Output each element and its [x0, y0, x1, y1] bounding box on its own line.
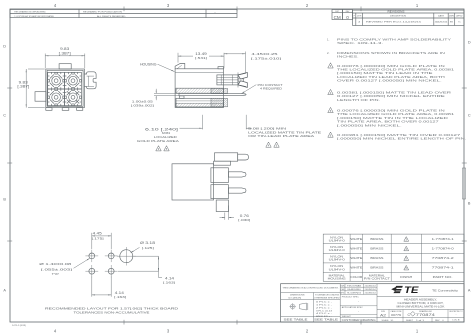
svg-text:HOUSING: HOUSING — [328, 277, 346, 281]
svg-text:© COPYRIGHT BY AMP INCOR: © COPYRIGHT BY AMP INCORPORATED — [14, 15, 55, 18]
svg-text:REVISED PER ECO-14-018215: REVISED PER ECO-14-018215 — [366, 22, 423, 24]
side view upper pin — [228, 172, 246, 177]
lower contact cross-section hatched — [211, 98, 228, 107]
front view housing body — [46, 69, 85, 108]
svg-text:DWN: DWN — [449, 15, 455, 17]
flag notes 4 6 triangles — [266, 142, 271, 147]
svg-text:24AUG2014: 24AUG2014 — [435, 21, 448, 24]
svg-text:D: D — [3, 45, 6, 49]
front view right latch — [84, 72, 96, 89]
svg-text:Ø 1.40±0.08: Ø 1.40±0.08 — [39, 262, 72, 266]
svg-text:3 PLC ±0.13: 3 PLC ±0.13 — [316, 310, 332, 312]
side view upper contact block — [211, 168, 229, 183]
svg-text:[.030]: [.030] — [238, 218, 250, 222]
side view bottom foot — [216, 200, 228, 212]
svg-text:D: D — [468, 41, 471, 45]
dimension 4.14 [.163] horizontal bottom — [91, 277, 93, 297]
product spec cell — [340, 305, 377, 307]
svg-text:[.125]: [.125] — [142, 246, 154, 250]
housing top step — [218, 67, 224, 69]
see table cells — [281, 316, 341, 318]
svg-text:SEE TABLE: SEE TABLE — [284, 318, 308, 322]
svg-text:24JUN2014: 24JUN2014 — [365, 289, 376, 291]
svg-text:FINISH: FINISH — [400, 276, 412, 279]
dimension 9.83 [.387] height - front view — [28, 68, 45, 70]
dimension 9.83 [.387] width - front view — [44, 54, 46, 69]
svg-text:MINI-UNIVERSAL MATE-N-LOK: MINI-UNIVERSAL MATE-N-LOK — [397, 306, 445, 309]
svg-text:REVISIONS: REVISIONS — [388, 12, 406, 14]
svg-text:0 PLC ± -: 0 PLC ± - — [316, 302, 333, 304]
svg-text:THIS DRAWING IS UNPUBLISHED.: THIS DRAWING IS UNPUBLISHED. — [14, 11, 46, 14]
svg-text:2.: 2. — [327, 51, 330, 55]
svg-text:BRASS: BRASS — [370, 237, 383, 241]
svg-text:A2: A2 — [380, 313, 386, 317]
svg-text:DIMENSIONS:: DIMENSIONS: — [290, 294, 305, 296]
name and date cells — [340, 286, 377, 288]
svg-text:UL94V-0: UL94V-0 — [329, 239, 346, 243]
contact cavity — [48, 72, 65, 89]
zone ticks bottom — [123, 320, 125, 325]
svg-text:[.175]: [.175] — [92, 236, 104, 240]
drawing number row — [377, 309, 464, 311]
svg-text:[.000050] MIN NICKEL ENTIRE LE: [.000050] MIN NICKEL ENTIRE LENGTH OF PI… — [337, 137, 467, 141]
svg-text:[.000050] MIN NICKEL.: [.000050] MIN NICKEL. — [337, 123, 402, 127]
svg-text:P/N CONTACT: P/N CONTACT — [364, 277, 391, 281]
svg-text:APVD: APVD — [456, 14, 463, 17]
side view top step — [214, 161, 231, 165]
revisions table — [353, 10, 464, 25]
dimension 4.45 [.175] hole spacing — [91, 233, 93, 249]
svg-text:WEIGHT: WEIGHT — [342, 316, 352, 318]
svg-text:S.DENG: S.DENG — [347, 293, 362, 295]
dimension 13.49 [.531] — [177, 53, 179, 63]
zone ticks right — [462, 87, 467, 89]
svg-text:GOLD PLATE AREA: GOLD PLATE AREA — [137, 139, 180, 143]
svg-text:SCALE: SCALE — [382, 319, 390, 322]
svg-text:24JUN2014: 24JUN2014 — [365, 293, 376, 295]
svg-text:[.039±.002]: [.039±.002] — [131, 103, 154, 107]
svg-text:WHITE: WHITE — [350, 247, 362, 251]
dimension 0.76 [.030] — [224, 213, 226, 220]
svg-text:1 PLC ± -: 1 PLC ± - — [316, 305, 333, 307]
dimension 1.00±0.05 pin thickness — [154, 92, 179, 94]
svg-text:CUSTOMER DRAWING: CUSTOMER DRAWING — [342, 319, 376, 322]
parts table — [323, 234, 464, 281]
upper hatched wall — [176, 88, 224, 93]
flag notes 3 5 triangles — [156, 146, 161, 151]
drawing title — [377, 296, 464, 298]
svg-text:24JUN2014: 24JUN2014 — [365, 285, 376, 287]
contact cavity — [65, 89, 82, 106]
svg-text:OVER 0.00127 [.000050] MIN NIC: OVER 0.00127 [.000050] MIN NICKEL. — [337, 79, 442, 83]
svg-text:CM: CM — [334, 15, 341, 20]
svg-text:UL94V-0: UL94V-0 — [329, 267, 346, 271]
svg-text:RESTRICTED TO: RESTRICTED TO — [450, 311, 464, 313]
svg-text:TOLERANCES NON-ACCUMULATIVE: TOLERANCES NON-ACCUMULATIVE — [74, 310, 150, 314]
svg-text:770874-1: 770874-1 — [432, 266, 455, 270]
svg-text:1 of 1: 1 of 1 — [416, 320, 425, 322]
svg-text:4 REQUIRED: 4 REQUIRED — [260, 87, 283, 91]
svg-text:2 PLC ± -: 2 PLC ± - — [316, 307, 333, 309]
svg-text:1-770874-1: 1-770874-1 — [432, 237, 455, 241]
svg-text:[.175±.010]: [.175±.010] — [251, 56, 281, 60]
svg-text:PART NO.: PART NO. — [433, 275, 453, 279]
svg-text:OTHERWISE SPECIFIED:: OTHERWISE SPECIFIED: — [314, 298, 340, 300]
pcb layout large hole — [120, 250, 133, 263]
side view housing body — [172, 164, 214, 200]
distribution box CM — [332, 10, 343, 20]
svg-text:INCHES.: INCHES. — [337, 55, 359, 59]
svg-text:ALL RIGHTS RESERVED.: ALL RIGHTS RESERVED. — [97, 15, 127, 18]
svg-text:B: B — [468, 202, 471, 206]
dimension 4.14 [.163] vertical right — [134, 255, 159, 257]
svg-text:[.531]: [.531] — [195, 56, 207, 60]
title block outline — [281, 284, 464, 322]
svg-text:Ø 3.18: Ø 3.18 — [140, 241, 155, 245]
svg-text:APVD: APVD — [341, 292, 346, 295]
svg-text:SPEC. 109-11-3.: SPEC. 109-11-3. — [337, 41, 384, 45]
svg-text:COLOR: COLOR — [350, 276, 362, 279]
recommended pcb layout holes — [89, 253, 95, 259]
dimension 4.45±0.25 [.175±.010] — [245, 52, 247, 73]
revision status box 0 — [343, 10, 353, 20]
revision bar right edge — [462, 168, 465, 199]
svg-text:- -: - - — [214, 12, 216, 14]
svg-text:-: - — [358, 310, 359, 313]
svg-text:RELEASED FOR PUBLICATION: RELEASED FOR PUBLICATION — [83, 11, 123, 14]
svg-text:1471-9 (3/13): 1471-9 (3/13) — [12, 325, 26, 327]
zone ticks left — [7, 87, 12, 89]
svg-text:J.BLANCHFIELD: J.BLANCHFIELD — [347, 288, 362, 291]
contact cavity — [48, 89, 65, 106]
dimension 6.10 [.240] MIN LOCALIZED GOLD PLATE AREA — [202, 115, 204, 130]
front view left mounting boss — [35, 92, 46, 102]
svg-text:PRODUCT SPEC: PRODUCT SPEC — [342, 296, 360, 298]
application spec cell — [340, 313, 377, 315]
svg-text:1-770874-0: 1-770874-0 — [432, 247, 455, 251]
pin retention bump — [179, 96, 184, 99]
svg-text:APPLICATION SPEC: APPLICATION SPEC — [342, 306, 364, 309]
svg-text:P.McGOWAN: P.McGOWAN — [347, 284, 362, 287]
dimension 5.08 [.200] MIN LOCALIZED MATTE TIN PLATE — [245, 115, 247, 130]
section view housing outline — [175, 69, 223, 108]
svg-text:UL94V-0: UL94V-0 — [329, 258, 346, 262]
svg-text:BRASS: BRASS — [370, 256, 383, 260]
svg-text:C: C — [468, 114, 471, 118]
svg-text:00779: 00779 — [391, 313, 401, 317]
svg-text:DATE: DATE — [438, 14, 445, 17]
svg-text:BRASS: BRASS — [370, 247, 383, 251]
svg-text:[.387]: [.387] — [17, 85, 29, 89]
svg-text:4 PLC ± -: 4 PLC ± - — [316, 313, 333, 315]
svg-text:OR TIN-LEAD PLATE AREA: OR TIN-LEAD PLATE AREA — [248, 134, 316, 138]
svg-text:-: - — [358, 301, 359, 304]
svg-text:1.: 1. — [327, 37, 330, 41]
svg-text:TYP: TYP — [52, 272, 59, 276]
svg-text:[.163]: [.163] — [114, 295, 126, 299]
svg-text:LENGTH OF PIN.: LENGTH OF PIN. — [337, 98, 380, 102]
svg-text:UL94V-0: UL94V-0 — [329, 248, 346, 252]
projection symbol — [290, 304, 295, 309]
svg-text:mm [INCH]: mm [INCH] — [288, 298, 302, 300]
scale sheet rev row — [377, 317, 464, 319]
housing inner wall line — [175, 71, 223, 73]
side view lower contact block — [211, 185, 229, 199]
TE Connectivity logo — [391, 285, 419, 295]
zone ticks top — [123, 7, 125, 12]
svg-text:TE Connectivity: TE Connectivity — [432, 288, 459, 292]
mating contact crown tip — [238, 72, 247, 79]
svg-text:[.163]: [.163] — [163, 280, 175, 284]
svg-text:0: 0 — [346, 15, 349, 20]
dimensions cell — [281, 298, 341, 300]
svg-text:DIST: DIST — [335, 11, 339, 13]
svg-text:THIS DRAWING IS A CONTROLLED D: THIS DRAWING IS A CONTROLLED DOCUMENT. — [282, 287, 338, 290]
section view latch hook — [175, 64, 185, 69]
svg-text:A: A — [468, 289, 471, 293]
svg-text:770874: 770874 — [416, 313, 435, 317]
svg-text:TOLERANCES UNLESS: TOLERANCES UNLESS — [315, 293, 340, 296]
svg-text:WHITE: WHITE — [350, 256, 362, 260]
contact cavity — [65, 72, 82, 89]
svg-text:WHITE: WHITE — [350, 266, 362, 270]
lower wall hatched strip — [176, 103, 224, 107]
svg-text:C: C — [3, 114, 6, 118]
mating contact body — [217, 75, 238, 85]
svg-text:BRASS: BRASS — [370, 266, 383, 270]
svg-text:WHITE: WHITE — [350, 237, 362, 241]
unpublished notice strip — [10, 10, 237, 18]
svg-text:[.055±.003]: [.055±.003] — [41, 268, 72, 272]
svg-text:SEE TABLE: SEE TABLE — [314, 318, 338, 322]
front view top tab — [59, 64, 71, 69]
side view top contact piece — [215, 153, 238, 161]
svg-text:DESCRIPTION: DESCRIPTION — [390, 15, 407, 17]
svg-text:LOC B: LOC B — [453, 319, 461, 321]
controlled document cell — [281, 292, 341, 294]
weight cell — [340, 317, 377, 319]
lower wall — [176, 98, 224, 107]
svg-text:HOUSING: HOUSING — [140, 62, 157, 66]
svg-text:[.387]: [.387] — [59, 51, 71, 55]
svg-text:SHEET: SHEET — [406, 320, 413, 322]
front view bottom feet — [46, 108, 52, 111]
svg-text:4.45: 4.45 — [93, 232, 102, 236]
pin contact pin shaft — [179, 93, 246, 95]
svg-text:770874-2: 770874-2 — [432, 256, 455, 260]
svg-text:RM: RM — [450, 22, 453, 24]
side view lower pin — [228, 188, 246, 193]
upper contact cross-section hatched — [211, 88, 228, 93]
svg-text:TE: TE — [404, 285, 420, 295]
